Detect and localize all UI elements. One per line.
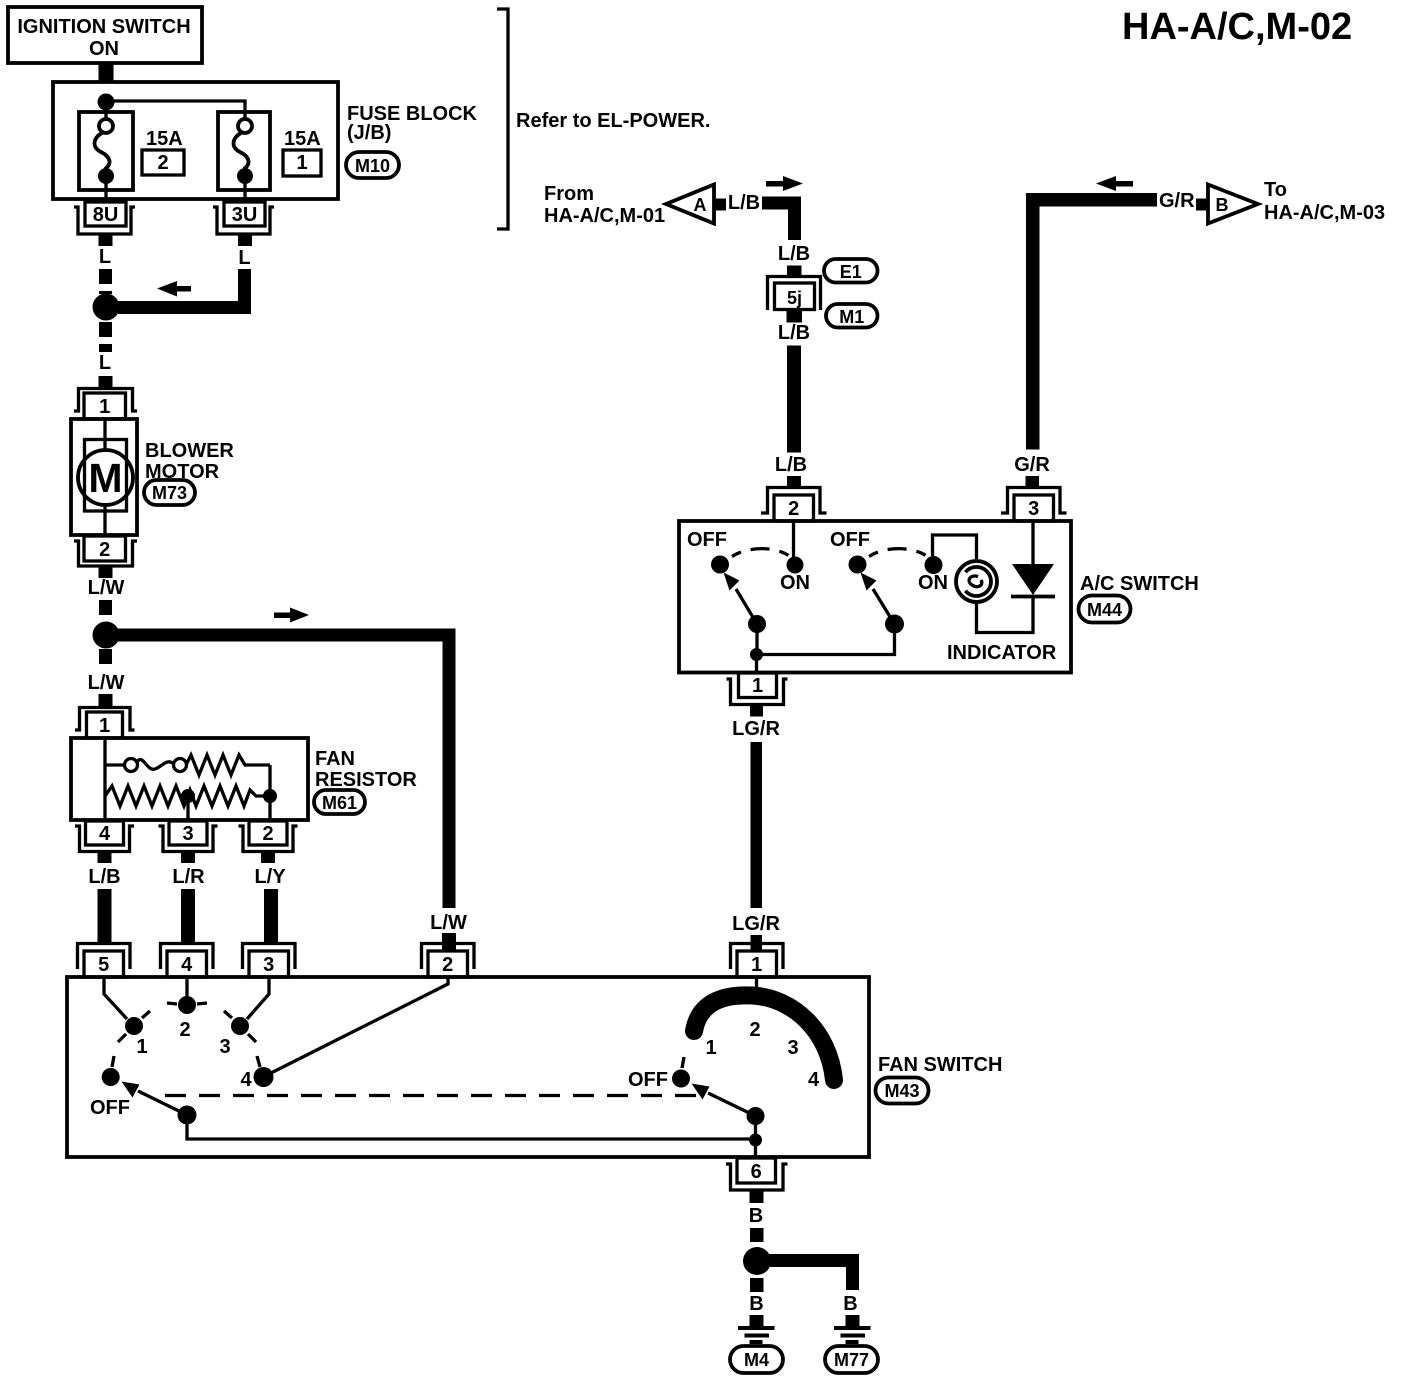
- label BLOWER MOTOR: [145, 440, 234, 483]
- svg-text:4: 4: [181, 954, 193, 976]
- svg-text:OFF: OFF: [90, 1097, 130, 1119]
- svg-text:6: 6: [751, 1161, 762, 1183]
- diode D1: [1011, 564, 1055, 597]
- switch lever 2 with arrow: [861, 573, 895, 625]
- wire stub to blower connector: [99, 376, 113, 389]
- wire bulb to diode bottom: [977, 598, 1034, 633]
- wire taps down to pins: [105, 796, 270, 820]
- fuse number box 2: [142, 150, 184, 175]
- svg-text:ON: ON: [89, 38, 119, 60]
- svg-text:B: B: [1216, 195, 1229, 215]
- svg-text:From: From: [544, 183, 594, 205]
- wire dashed 8U to junction: [99, 269, 112, 294]
- svg-text:HA-A/C,M-01: HA-A/C,M-01: [544, 205, 665, 227]
- label To HA-A/C,M-03: [1264, 179, 1385, 224]
- connector ref E1 oval: [824, 259, 878, 283]
- wire LG/R down: [751, 742, 763, 908]
- connector ref M1 oval: [826, 304, 878, 328]
- wire stub triangle A: [714, 199, 726, 211]
- node resistor right tap: [263, 789, 277, 803]
- connector 3 on fan switch: [243, 944, 296, 978]
- wire thick G/R down: [1026, 193, 1040, 450]
- wire junction to fuse 1: [104, 102, 107, 119]
- svg-text:FAN: FAN: [315, 748, 355, 770]
- wire dashed junction to blower: [99, 322, 112, 352]
- connector ref M10 oval: [346, 152, 399, 178]
- wire stub above resistor connector 1: [99, 694, 113, 708]
- wire junction to fuse 2: [106, 101, 245, 120]
- wire pin4 to contact 2: [185, 977, 188, 996]
- wire stub below connector 6: [750, 1190, 764, 1203]
- wire stub triangle B: [1196, 199, 1208, 211]
- connector 1 on fan switch: [731, 944, 784, 978]
- connector ref M44 oval: [1079, 596, 1131, 623]
- svg-text:4: 4: [808, 1069, 820, 1091]
- svg-text:A/C SWITCH: A/C SWITCH: [1080, 573, 1199, 595]
- svg-text:4: 4: [99, 823, 111, 845]
- wire pin1 into resistor network: [103, 738, 106, 796]
- svg-text:FAN SWITCH: FAN SWITCH: [878, 1054, 1002, 1076]
- wire stub below 8U: [99, 234, 113, 246]
- svg-text:OFF: OFF: [687, 529, 727, 551]
- svg-text:ON: ON: [780, 572, 810, 594]
- svg-text:RESISTOR: RESISTOR: [315, 769, 417, 791]
- svg-text:1: 1: [99, 715, 110, 737]
- fuse block box M10: [53, 82, 338, 199]
- wire dash below B: [750, 1228, 764, 1242]
- svg-text:M77: M77: [834, 1350, 869, 1370]
- wire stub above fan switch connector 1: [751, 935, 763, 951]
- wire connector 2 to ON contact: [792, 521, 795, 557]
- svg-text:M43: M43: [884, 1081, 919, 1101]
- wire stub above connector 3: [1026, 476, 1040, 489]
- svg-text:OFF: OFF: [830, 529, 870, 551]
- svg-text:1: 1: [99, 396, 110, 418]
- svg-text:5: 5: [98, 954, 109, 976]
- connector 4 below resistor: [75, 821, 134, 852]
- wire pivot right to connector 6: [754, 1116, 757, 1157]
- connector 4 on fan switch: [161, 944, 214, 978]
- svg-text:ON: ON: [918, 572, 948, 594]
- wire thick 3U down to junction: [118, 269, 245, 308]
- svg-text:1: 1: [752, 675, 763, 697]
- arrow right above corner: [766, 176, 803, 191]
- wire thick G/R corner: [1026, 193, 1157, 207]
- svg-text:2: 2: [179, 1019, 190, 1041]
- resistor R2 zigzag bottom: [105, 786, 270, 806]
- wire stub above ground M77: [846, 1315, 860, 1328]
- wire thick from A corner down: [762, 197, 795, 241]
- wire thick branch to M77: [769, 1254, 853, 1290]
- svg-text:LG/R: LG/R: [732, 913, 780, 935]
- lever right with arrow: [692, 1084, 756, 1117]
- fan switch box M43: [67, 977, 869, 1157]
- wire pin1 to rotary arc: [755, 977, 758, 997]
- connector ref M61 oval: [314, 790, 365, 814]
- A/C switch box M44: [679, 521, 1071, 673]
- svg-text:L/W: L/W: [88, 577, 125, 599]
- wire pin2 diagonal to contact 4: [271, 977, 448, 1073]
- wire top row to right node: [268, 765, 271, 791]
- svg-text:2: 2: [749, 1019, 760, 1041]
- connector ref M4 oval: [730, 1346, 783, 1373]
- fan resistor box M61: [71, 738, 308, 820]
- svg-text:L/W: L/W: [430, 912, 467, 934]
- ground symbol M77: [834, 1328, 871, 1342]
- svg-text:4: 4: [240, 1069, 252, 1091]
- wire stub below connector 4: [98, 852, 112, 863]
- wire connector 3 to diode: [1031, 521, 1034, 564]
- svg-text:3: 3: [182, 823, 193, 845]
- contact dot 4 left: [254, 1056, 274, 1087]
- ground symbol M4: [738, 1328, 775, 1342]
- pivot dot 1: [748, 615, 766, 633]
- wire L/B down: [98, 889, 112, 945]
- svg-text:M4: M4: [744, 1350, 769, 1370]
- bracket refer group: [497, 9, 508, 229]
- connector ref M43 oval: [876, 1078, 929, 1104]
- svg-text:M61: M61: [322, 793, 357, 813]
- connector 3U: [213, 202, 274, 234]
- node junction in fuse block: [98, 94, 115, 111]
- blower motor M73: [71, 419, 137, 535]
- wire stub above connector 2: [787, 476, 801, 489]
- svg-text:2: 2: [788, 498, 799, 520]
- wire stub below motor connector 2: [99, 566, 113, 578]
- wire stub above fan switch connector 2: [442, 933, 456, 951]
- svg-text:G/R: G/R: [1014, 454, 1050, 476]
- node below pivot right: [749, 1134, 762, 1147]
- connector 1 below A/C switch: [727, 673, 788, 705]
- fuse F1 15A box: [218, 112, 270, 202]
- connector 6 below fan switch: [726, 1158, 788, 1190]
- pivot dot left: [178, 1106, 197, 1125]
- svg-text:15A: 15A: [284, 128, 321, 150]
- arrow right on L/W branch: [274, 608, 309, 623]
- switch lever 1 with arrow: [724, 573, 758, 625]
- svg-text:3: 3: [219, 1036, 230, 1058]
- svg-text:B: B: [749, 1293, 763, 1315]
- svg-text:L: L: [99, 352, 111, 374]
- svg-text:3: 3: [787, 1037, 798, 1059]
- node junction L/W: [93, 622, 120, 649]
- connector 3 on A/C switch: [1001, 488, 1067, 522]
- pivot dot right: [747, 1107, 765, 1125]
- wire dashed to junction: [99, 600, 112, 622]
- svg-text:LG/R: LG/R: [732, 718, 780, 740]
- node resistor mid tap: [181, 789, 195, 803]
- connector 1 on blower motor: [74, 389, 137, 420]
- svg-text:L: L: [238, 247, 250, 269]
- wire ON2 to indicator bulb: [933, 535, 977, 562]
- wire stub below connector 2: [261, 852, 275, 863]
- svg-text:1: 1: [296, 152, 307, 174]
- node junction L: [93, 294, 120, 321]
- svg-text:2: 2: [99, 539, 110, 561]
- indicator bulb: [956, 561, 997, 602]
- thermal fuse circles and link: [105, 759, 187, 772]
- svg-text:M1: M1: [839, 307, 864, 327]
- label From HA-A/C,M-01: [544, 183, 665, 227]
- dashed link line: [165, 1094, 702, 1097]
- svg-text:M73: M73: [152, 483, 187, 503]
- triangle connector B: [1208, 185, 1258, 224]
- svg-text:L/R: L/R: [172, 866, 205, 888]
- wire pivot1 to node: [755, 624, 758, 654]
- wire L/Y down: [264, 889, 278, 945]
- wire stub below connector 3: [181, 852, 195, 863]
- svg-text:(J/B): (J/B): [347, 122, 391, 144]
- svg-text:3U: 3U: [232, 204, 258, 226]
- wire stub below 3U: [238, 234, 252, 246]
- dashed throw arc 2: [869, 549, 928, 557]
- svg-text:INDICATOR: INDICATOR: [947, 642, 1057, 664]
- connector 2 below resistor: [239, 821, 298, 852]
- svg-text:M10: M10: [355, 156, 390, 176]
- wire dashed below junction: [99, 649, 112, 670]
- contact ON dot 2: [925, 556, 943, 574]
- contact OFF dot 2: [849, 556, 867, 574]
- svg-text:To: To: [1264, 179, 1287, 201]
- dashed throw arc 1: [732, 549, 790, 557]
- wire stub above ground M4: [750, 1315, 764, 1328]
- node ground junction: [743, 1247, 771, 1275]
- svg-text:L/B: L/B: [778, 243, 810, 265]
- svg-text:B: B: [843, 1293, 857, 1315]
- node below pivot 1: [750, 648, 763, 661]
- svg-text:HA-A/C,M-03: HA-A/C,M-03: [1264, 202, 1385, 224]
- svg-text:8U: 8U: [93, 204, 119, 226]
- label FAN RESISTOR: [315, 748, 417, 791]
- svg-text:L/W: L/W: [88, 672, 125, 694]
- svg-text:IGNITION SWITCH: IGNITION SWITCH: [17, 16, 190, 38]
- svg-text:3: 3: [1028, 498, 1039, 520]
- contact OFF dot right: [672, 1057, 690, 1088]
- connector 5 on fan switch: [78, 944, 131, 978]
- contact ON dot 1: [787, 557, 804, 574]
- svg-text:1: 1: [136, 1036, 147, 1058]
- contact dot 3 left: [224, 1011, 256, 1042]
- resistor R1 zigzag top: [186, 755, 270, 775]
- connector ref M77 oval: [825, 1346, 878, 1373]
- wire node to connector 1: [755, 655, 758, 673]
- connector ref M73 oval: [144, 480, 195, 505]
- arrow left on wire: [157, 281, 191, 297]
- wire stub ignition to fuse block: [99, 63, 114, 83]
- contact OFF dot 1: [711, 556, 729, 574]
- svg-text:1: 1: [751, 954, 762, 976]
- wire pivot left to common: [187, 1115, 755, 1139]
- contact dot 2 left: [167, 996, 207, 1014]
- wire thick L/W branch right and down: [118, 629, 449, 909]
- fuse number box 1: [283, 150, 321, 176]
- wire pin5 to contact 1: [104, 977, 127, 1019]
- svg-text:L/B: L/B: [88, 866, 120, 888]
- pivot dot 2: [885, 615, 904, 634]
- lever left with arrow: [122, 1082, 188, 1116]
- contact dot 1 left: [118, 1011, 150, 1042]
- connector 2 below blower motor: [74, 536, 137, 566]
- svg-text:L/B: L/B: [728, 192, 760, 214]
- connector 3 below resistor: [159, 821, 218, 852]
- rotary arc fan speed: [694, 995, 834, 1080]
- contact OFF dot left: [102, 1056, 120, 1086]
- connector 5j joint: [768, 277, 821, 311]
- svg-text:L: L: [99, 246, 111, 268]
- svg-text:2: 2: [442, 954, 453, 976]
- arrow left on G/R wire: [1096, 176, 1133, 191]
- wire L/R down: [181, 889, 195, 945]
- triangle connector A: [666, 185, 714, 224]
- connector 2 on A/C switch: [761, 488, 827, 522]
- wire dash below junction: [750, 1278, 764, 1292]
- wire pin3 to contact 3: [247, 977, 269, 1019]
- svg-text:2: 2: [262, 823, 273, 845]
- connector 1 on fan resistor: [75, 708, 135, 739]
- wire thick L/B down: [787, 346, 801, 453]
- label FUSE BLOCK (J/B): [347, 103, 478, 144]
- svg-text:M: M: [88, 455, 122, 501]
- svg-text:E1: E1: [840, 262, 862, 282]
- connector 8U: [74, 202, 135, 234]
- svg-text:2: 2: [157, 152, 168, 174]
- svg-text:HA-A/C,M-02: HA-A/C,M-02: [1122, 6, 1352, 48]
- svg-text:OFF: OFF: [628, 1069, 668, 1091]
- wire node to pivot 2: [757, 624, 895, 655]
- wire stub below 5j: [787, 310, 803, 323]
- svg-text:15A: 15A: [146, 128, 183, 150]
- svg-text:G/R: G/R: [1159, 190, 1195, 212]
- svg-text:1: 1: [705, 1037, 716, 1059]
- svg-text:Refer to EL-POWER.: Refer to EL-POWER.: [516, 110, 710, 132]
- wire stub above 5j: [787, 266, 802, 277]
- ignition switch box: [8, 7, 202, 63]
- fuse F2 15A box: [79, 112, 133, 202]
- svg-text:M44: M44: [1087, 600, 1122, 620]
- wire stub below connector 1: [750, 705, 763, 717]
- svg-text:L/Y: L/Y: [254, 866, 286, 888]
- svg-text:3: 3: [263, 954, 274, 976]
- connector 2 on fan switch: [422, 944, 475, 978]
- svg-text:L/B: L/B: [778, 322, 810, 344]
- svg-text:B: B: [749, 1205, 763, 1227]
- svg-text:A: A: [694, 195, 707, 215]
- svg-text:5j: 5j: [787, 288, 802, 308]
- svg-text:BLOWER: BLOWER: [145, 440, 234, 462]
- svg-text:L/B: L/B: [775, 454, 807, 476]
